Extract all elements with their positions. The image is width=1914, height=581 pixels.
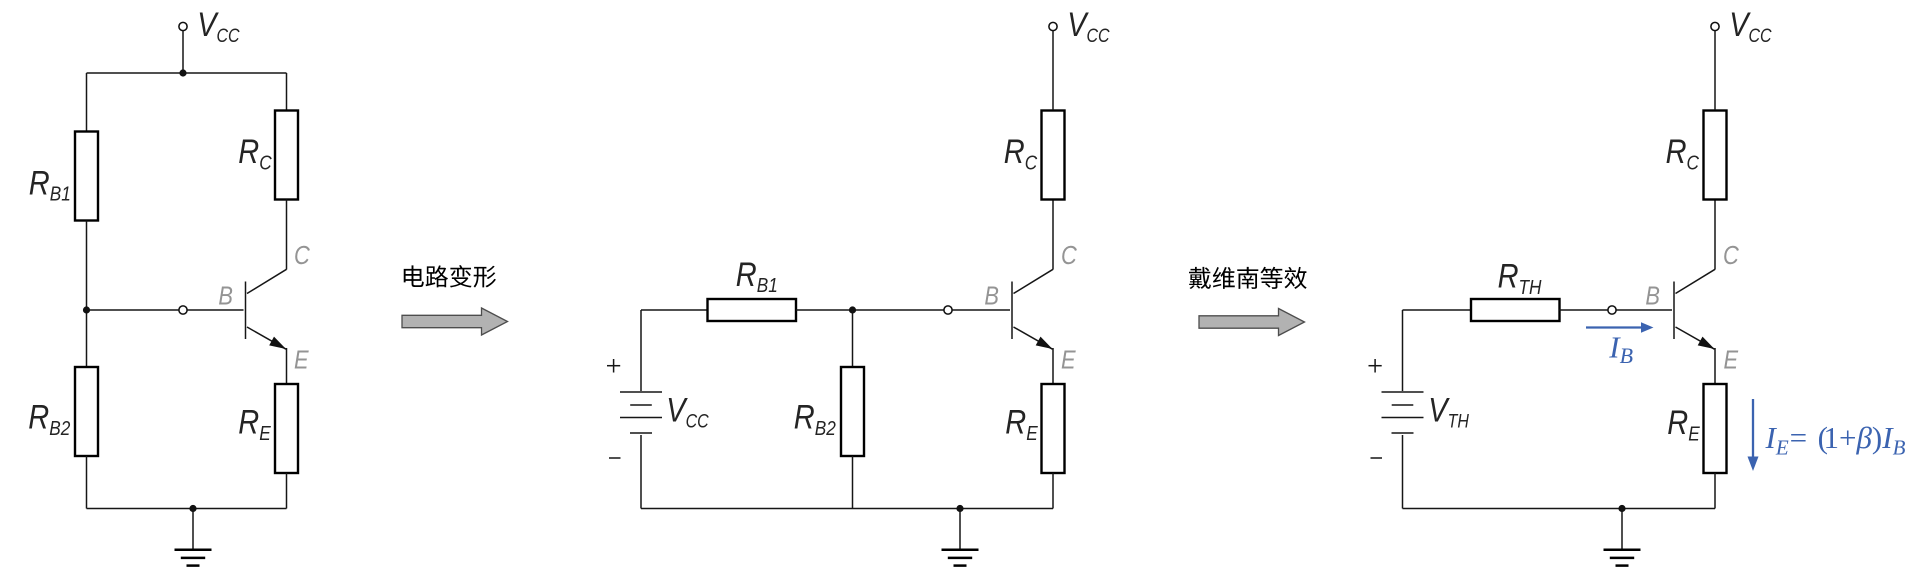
- svg-text:B: B: [1645, 282, 1660, 311]
- svg-text:B: B: [218, 282, 233, 311]
- svg-text:B: B: [984, 282, 999, 311]
- svg-text:C: C: [294, 241, 310, 270]
- svg-text:E: E: [1724, 346, 1739, 375]
- svg-text:E: E: [294, 346, 309, 375]
- svg-text:C: C: [1723, 241, 1739, 270]
- svg-text:E: E: [1061, 346, 1076, 375]
- svg-text:C: C: [1061, 241, 1077, 270]
